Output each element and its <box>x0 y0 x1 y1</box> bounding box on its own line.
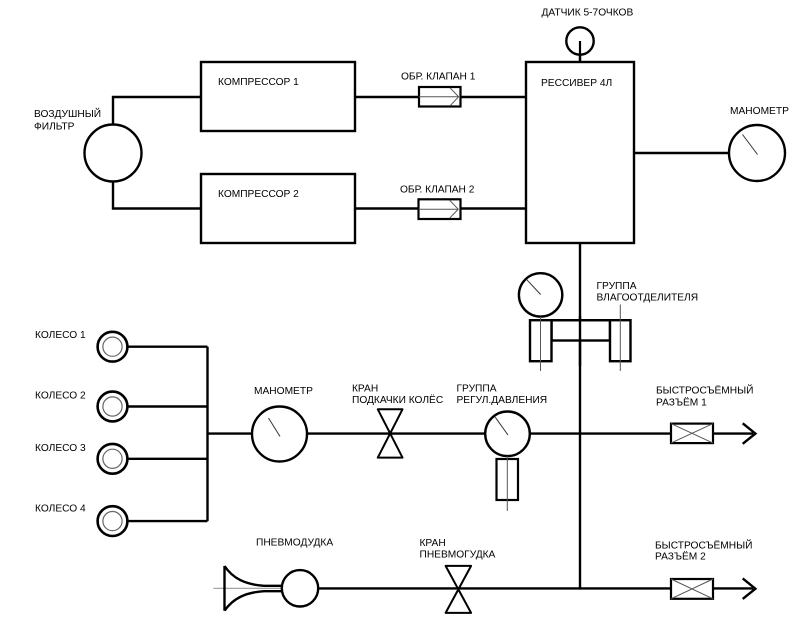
wire wheel1 branch <box>128 346 208 348</box>
svg-text:КОЛЕСО 3: КОЛЕСО 3 <box>35 443 86 454</box>
quick connector 1 <box>671 423 755 444</box>
wire compressor1 to check valve1 <box>355 96 419 98</box>
svg-text:ГРУППА: ГРУППА <box>597 281 637 292</box>
svg-text:ВЛАГООТДЕЛИТЕЛЯ: ВЛАГООТДЕЛИТЕЛЯ <box>597 293 699 304</box>
manometer tire line <box>252 407 307 462</box>
svg-text:КОЛЕСО 2: КОЛЕСО 2 <box>35 391 86 402</box>
separator right cartridge <box>610 320 631 361</box>
water separator group <box>519 273 631 371</box>
check valve 2 <box>419 199 461 219</box>
wire check valve2 to receiver <box>461 207 527 209</box>
wire filter bottom to compressor2 <box>113 180 201 209</box>
manometer top right <box>729 125 785 181</box>
svg-text:ОБР. КЛАПАН 1: ОБР. КЛАПАН 1 <box>401 72 476 83</box>
compressor 2 <box>201 174 355 243</box>
tire inflation valve <box>378 409 403 457</box>
wire check valve1 to receiver <box>461 96 527 98</box>
compressor 1 <box>201 62 355 131</box>
wire wheel2 branch <box>128 405 208 407</box>
check valve 1 <box>419 87 461 107</box>
wire receiver bottom main vertical <box>579 243 581 590</box>
wire horn line <box>300 587 753 589</box>
wire wheel3 branch <box>128 458 208 460</box>
wheel 2 <box>98 392 128 422</box>
wire wheel4 branch <box>128 520 208 522</box>
svg-text:БЫСТРОСЪЁМНЫЙ: БЫСТРОСЪЁМНЫЙ <box>656 384 754 397</box>
svg-text:РАЗЪЁМ 1: РАЗЪЁМ 1 <box>656 397 707 409</box>
wire compressor2 to check valve2 <box>355 207 419 209</box>
air filter F1 <box>85 125 142 182</box>
separator left cartridge <box>530 320 552 361</box>
receiver tank <box>526 62 634 243</box>
separator gauge <box>519 273 562 316</box>
svg-text:КРАН: КРАН <box>420 538 446 549</box>
svg-text:КОЛЕСО 1: КОЛЕСО 1 <box>35 330 86 341</box>
svg-text:ПНЕВМОГУДКА: ПНЕВМОГУДКА <box>420 550 496 561</box>
pressure regulator group <box>485 412 530 512</box>
svg-text:КОМПРЕССОР 2: КОМПРЕССОР 2 <box>218 189 299 200</box>
horn valve <box>446 566 472 613</box>
svg-text:КОЛЕСО 4: КОЛЕСО 4 <box>35 504 86 515</box>
separator crossbar <box>552 320 611 340</box>
svg-text:ФИЛЬТР: ФИЛЬТР <box>34 122 75 133</box>
wire receiver right to manometer <box>634 152 729 154</box>
svg-text:РАЗЪЁМ 2: РАЗЪЁМ 2 <box>655 551 706 563</box>
quick connector 2 <box>671 578 755 599</box>
svg-text:КРАН: КРАН <box>352 384 378 395</box>
svg-text:ПНЕВМОДУДКА: ПНЕВМОДУДКА <box>256 538 333 549</box>
svg-text:ГРУППА: ГРУППА <box>457 384 497 395</box>
wire collector vertical <box>206 347 208 521</box>
svg-text:БЫСТРОСЪЁМНЫЙ: БЫСТРОСЪЁМНЫЙ <box>655 539 753 552</box>
wire tire line <box>208 432 754 434</box>
svg-text:МАНОМЕТР: МАНОМЕТР <box>254 386 313 397</box>
svg-text:ПОДКАЧКИ КОЛЁС: ПОДКАЧКИ КОЛЁС <box>352 394 443 406</box>
wire main vertical over crossbar <box>579 316 581 366</box>
air horn <box>214 566 319 611</box>
svg-text:РЕГУЛ.ДАВЛЕНИЯ: РЕГУЛ.ДАВЛЕНИЯ <box>457 395 548 406</box>
pressure sensor <box>566 27 593 54</box>
svg-text:РЕССИВЕР 4Л: РЕССИВЕР 4Л <box>541 78 612 89</box>
wire filter top to compressor1 <box>113 97 201 126</box>
svg-text:ОБР. КЛАПАН 2: ОБР. КЛАПАН 2 <box>400 185 475 196</box>
svg-text:ВОЗДУШНЫЙ: ВОЗДУШНЫЙ <box>34 107 101 120</box>
wheel 1 <box>98 332 128 362</box>
separator right drain line <box>619 305 621 372</box>
svg-text:МАНОМЕТР: МАНОМЕТР <box>730 106 789 117</box>
separator left drain line <box>540 317 542 371</box>
wheel 3 <box>98 444 128 474</box>
svg-text:ДАТЧИК 5-7ОЧКОВ: ДАТЧИК 5-7ОЧКОВ <box>542 8 634 19</box>
wheel 4 <box>98 506 128 536</box>
wire sensor to receiver top <box>579 41 581 62</box>
svg-text:КОМПРЕССОР 1: КОМПРЕССОР 1 <box>218 77 299 88</box>
